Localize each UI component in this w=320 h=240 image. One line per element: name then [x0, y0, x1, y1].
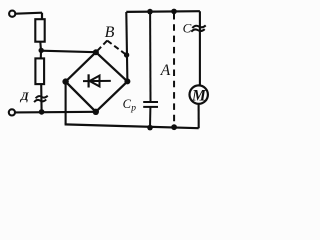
terminal bottom-left: [9, 109, 15, 115]
resistor R1: [35, 19, 44, 42]
motor M circle: [190, 85, 208, 103]
top bus wire: [126, 10, 200, 13]
wire R1 to node: [39, 42, 42, 51]
diode lead inside bridge: [83, 80, 111, 82]
capacitor break symbol (double tilde) on right wire: [192, 25, 205, 28]
svg-text:р: р: [130, 104, 136, 114]
switch B dashed link left leg: [97, 41, 107, 51]
wire into R1: [41, 13, 43, 20]
capacitor Cp top plate: [143, 101, 158, 103]
svg-text:Д: Д: [20, 91, 30, 103]
svg-text:В: В: [105, 24, 115, 41]
node bridge top vertex: [93, 49, 99, 55]
bottom bus wire: [65, 124, 199, 128]
svg-text:С: С: [183, 20, 192, 35]
wire right edge from top bus down: [199, 11, 201, 85]
ammeter A dashed line: [173, 13, 175, 127]
wire top-left horizontal: [16, 13, 42, 14]
wire bridge left vertex down: [65, 82, 67, 125]
sensor break symbol (double tilde) on wire: [36, 96, 48, 99]
bridge rectifier diamond: [66, 52, 128, 112]
wire Cp branch upper: [149, 12, 151, 102]
node bridge left vertex: [62, 78, 68, 84]
resistor R2: [35, 58, 44, 84]
wire R2 to bottom node: [40, 84, 42, 112]
node junction R1/R2: [39, 48, 44, 53]
terminal top-left: [9, 11, 15, 17]
svg-text:А: А: [160, 62, 171, 79]
wire Cp branch lower: [149, 107, 151, 128]
node top bus / A branch: [171, 9, 177, 15]
node bottom bus / Cp: [147, 125, 153, 131]
diode triangle: [90, 76, 100, 87]
diode cathode bar: [87, 74, 89, 87]
node top bus / Cp branch: [147, 9, 153, 15]
wire bottom-left to bridge bottom: [16, 111, 96, 114]
node dashed-B on vertical wire: [124, 52, 129, 57]
node bridge bottom vertex: [93, 109, 99, 115]
capacitor Cp bottom plate: [143, 106, 158, 108]
node bottom bus / A: [171, 124, 177, 130]
wire node to bridge top: [41, 51, 96, 53]
wire motor to bottom bus: [198, 103, 200, 128]
switch B dashed link right leg: [107, 41, 126, 55]
wire bridge right vertex up to top bus: [126, 12, 127, 81]
node bridge right vertex: [124, 78, 130, 84]
svg-text:М: М: [191, 87, 207, 104]
wire node to R2: [40, 50, 42, 58]
node junction bottom of R2: [39, 109, 45, 115]
